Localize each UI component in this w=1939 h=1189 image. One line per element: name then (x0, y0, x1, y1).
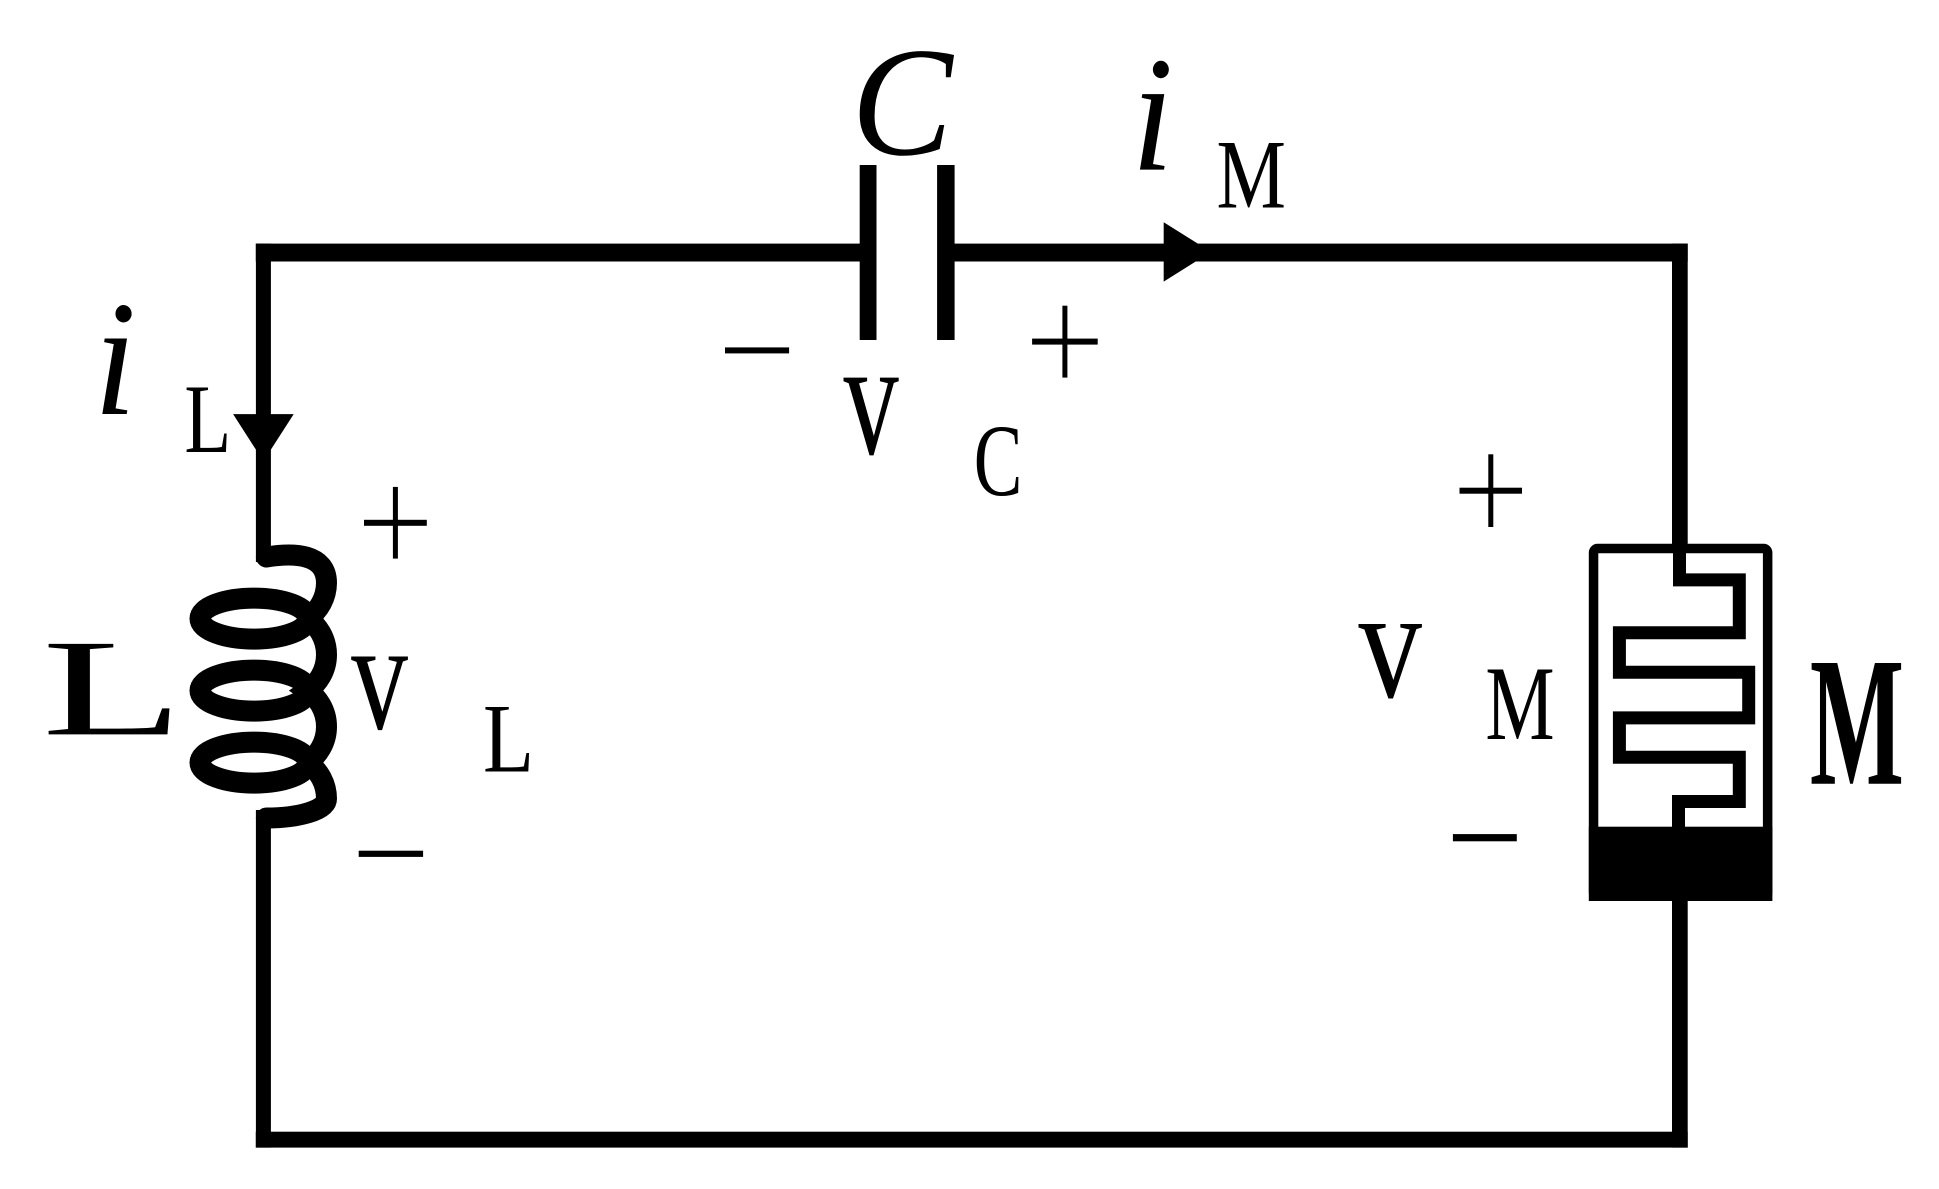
inductor L coil (200, 598, 308, 639)
svg-text:v: v (844, 307, 900, 491)
svg-text:L: L (184, 365, 231, 474)
svg-text:L: L (483, 683, 534, 793)
capacitor C left plate (860, 165, 877, 340)
minus sign of v_C (725, 347, 789, 353)
memristor M outer box (1594, 549, 1768, 897)
wire top-left segment (top wire, left of capacitor) (256, 244, 861, 262)
svg-text:i: i (94, 269, 136, 450)
wire right upper segment (1672, 244, 1688, 549)
minus sign of v_L (359, 851, 423, 857)
wire left upper segment (256, 244, 271, 562)
svg-text:L: L (42, 612, 183, 765)
wire left lower segment (256, 810, 271, 1148)
arrowhead of current i_M on top wire (1164, 222, 1211, 281)
svg-text:C: C (851, 17, 955, 189)
svg-text:M: M (1216, 121, 1285, 230)
arrowhead of current i_L on left wire (233, 414, 294, 461)
wire bottom segment (256, 1132, 1688, 1148)
svg-text:v: v (1359, 557, 1423, 733)
plus sign of v_C (1062, 306, 1067, 378)
memristor M filled electrode bar (1589, 827, 1773, 901)
plus sign of v_M (1488, 454, 1493, 527)
minus sign of v_M (1453, 834, 1517, 841)
capacitor C right plate (937, 165, 955, 340)
svg-text:i: i (1132, 25, 1174, 206)
plus sign of v_L (393, 487, 398, 559)
svg-text:M: M (1485, 646, 1554, 763)
wire right lower segment (1672, 896, 1688, 1148)
svg-text:M: M (1810, 621, 1904, 825)
svg-text:v: v (351, 589, 408, 763)
wire top-right segment (top wire, right of capacitor) (954, 244, 1688, 262)
svg-text:C: C (974, 405, 1023, 518)
memristor M internal zig-zag (1619, 545, 1748, 833)
